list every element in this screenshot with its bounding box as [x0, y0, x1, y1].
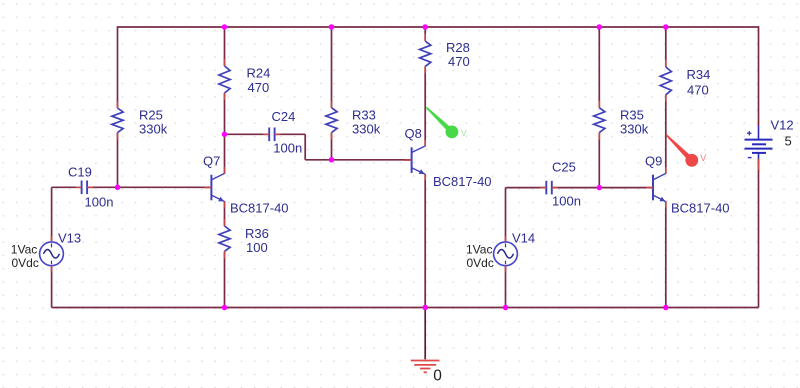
svg-text:R24: R24	[247, 65, 271, 80]
svg-text:R35: R35	[620, 107, 644, 122]
svg-text:Q7: Q7	[203, 153, 220, 168]
svg-text:V12: V12	[771, 118, 794, 133]
svg-text:0Vdc: 0Vdc	[467, 256, 494, 270]
svg-text:1Vac: 1Vac	[466, 243, 492, 257]
svg-text:R36: R36	[245, 226, 269, 241]
svg-text:470: 470	[248, 80, 270, 95]
svg-text:R25: R25	[139, 107, 163, 122]
svg-text:470: 470	[687, 82, 709, 97]
svg-text:330k: 330k	[352, 122, 381, 137]
svg-text:100n: 100n	[273, 141, 302, 156]
svg-text:0: 0	[433, 367, 442, 384]
svg-text:R34: R34	[687, 67, 711, 82]
svg-text:100n: 100n	[552, 193, 581, 208]
svg-text:BC817-40: BC817-40	[230, 201, 289, 216]
svg-text:R28: R28	[446, 40, 470, 55]
svg-text:C19: C19	[68, 164, 92, 179]
svg-text:R33: R33	[352, 107, 376, 122]
svg-text:Q9: Q9	[645, 153, 662, 168]
svg-text:V: V	[461, 128, 467, 138]
svg-text:470: 470	[448, 54, 470, 69]
svg-text:100n: 100n	[85, 194, 114, 209]
svg-text:C24: C24	[272, 109, 296, 124]
svg-text:1Vac: 1Vac	[11, 243, 37, 257]
svg-text:Q8: Q8	[405, 126, 422, 141]
svg-text:V13: V13	[58, 231, 81, 246]
svg-text:V: V	[700, 153, 706, 163]
svg-text:V14: V14	[512, 231, 535, 246]
svg-text:5: 5	[785, 133, 792, 148]
svg-text:330k: 330k	[139, 122, 168, 137]
svg-text:0Vdc: 0Vdc	[12, 256, 39, 270]
svg-text:BC817-40: BC817-40	[433, 174, 492, 189]
svg-text:100: 100	[246, 240, 268, 255]
svg-text:C25: C25	[552, 159, 576, 174]
svg-text:330k: 330k	[620, 122, 649, 137]
svg-text:BC817-40: BC817-40	[671, 201, 730, 216]
